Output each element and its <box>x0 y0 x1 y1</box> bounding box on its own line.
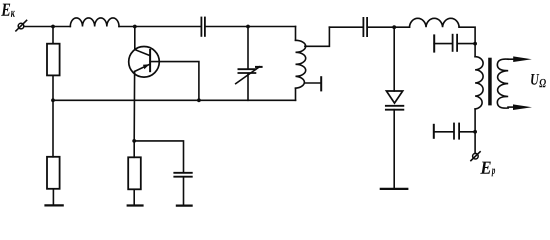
wire tank bottom tap <box>305 82 321 84</box>
terminal Ep <box>471 152 480 161</box>
ground bar under R3 <box>128 204 143 206</box>
transformer core <box>488 58 492 106</box>
ground bar at tank tap <box>320 77 322 90</box>
inductor L3 tank coil <box>296 40 306 88</box>
capacitor C5 <box>453 35 458 51</box>
resistor R2 <box>47 157 60 189</box>
wire R1 bottom lead <box>52 75 54 100</box>
wire var-cap top lead <box>247 27 249 69</box>
wire primary top lead <box>474 44 476 57</box>
terminal bar of C5 <box>433 35 435 51</box>
label Ek <box>1 4 15 17</box>
variable capacitor C3 <box>236 67 262 84</box>
transformer T1 primary <box>475 57 483 109</box>
node var-cap top junction <box>246 25 250 29</box>
wire R2 bottom lead <box>52 189 54 206</box>
node diode junction <box>392 25 396 29</box>
wire C5 right lead <box>458 43 475 45</box>
wire top rail left <box>24 26 71 28</box>
wire Ep lead <box>474 132 476 154</box>
node collector junction <box>133 25 137 29</box>
wire C2 bottom lead <box>183 178 185 206</box>
label U omega <box>531 74 546 87</box>
wire output bottom lead with arrow <box>508 104 532 110</box>
capacitor C6 <box>454 124 459 139</box>
wire tank vertical top <box>295 27 297 41</box>
wire output top lead with arrow <box>508 56 532 62</box>
label Ep <box>480 162 495 177</box>
wire emitter lead <box>133 71 135 140</box>
capacitor C1 <box>201 18 205 36</box>
node junction at R1 top <box>51 25 55 29</box>
wire tank top tap <box>305 27 330 46</box>
wire base lead <box>150 62 199 101</box>
wire primary bottom lead <box>474 109 476 132</box>
wire L2 to corner <box>459 27 475 43</box>
ground bar under R2 <box>46 204 63 206</box>
wire C4 to L2 <box>368 26 410 28</box>
resistor R1 <box>47 44 60 76</box>
capacitor C4 <box>363 18 367 36</box>
node emitter junction <box>132 139 136 143</box>
wire R3 top lead <box>133 141 135 157</box>
wire top rail middle <box>119 26 200 28</box>
wire middle bus <box>53 99 296 101</box>
wire C6 right lead <box>460 131 475 133</box>
node C5 junction <box>473 42 477 46</box>
ground bar under C2 <box>177 205 192 207</box>
resistor R3 <box>128 157 141 189</box>
wire collector lead <box>134 27 136 50</box>
wire C6 left lead <box>434 131 453 133</box>
wire diode anode lead <box>393 27 395 91</box>
wire R2 top lead <box>52 100 54 157</box>
node bus left junction <box>51 98 55 102</box>
wire C5 left lead <box>434 43 452 45</box>
wire diode cathode lead <box>393 110 395 189</box>
node base-bus junction <box>197 98 201 102</box>
node C6 junction <box>473 130 477 134</box>
ground bar under diode <box>381 188 408 190</box>
transistor VT1 <box>129 47 160 78</box>
terminal Ek <box>16 20 27 31</box>
inductor L2 <box>410 18 460 27</box>
wire tank vertical bottom <box>295 88 297 100</box>
wire emitter to C2 <box>134 141 183 172</box>
varicap diode VD1 <box>386 91 403 110</box>
transformer T1 secondary <box>497 59 508 108</box>
wire R1 top lead <box>52 27 54 44</box>
capacitor C2 <box>174 173 192 177</box>
terminal bar of C6 <box>433 125 435 138</box>
wire var-cap bottom lead <box>247 74 249 100</box>
inductor L1 <box>70 18 119 27</box>
wire top rail right of C1 <box>206 26 296 28</box>
wire to C4 <box>329 26 362 28</box>
wire R3 bottom lead <box>133 189 135 205</box>
